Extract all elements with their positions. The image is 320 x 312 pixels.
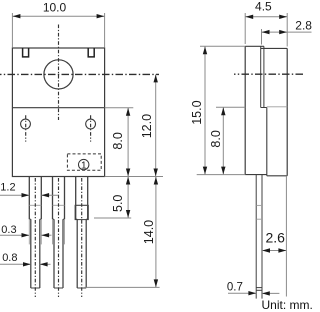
dimension 12.0 line: [155, 74, 157, 176]
side view pocket edge lines: [260, 46, 262, 107]
svg-text:14.0: 14.0: [142, 220, 156, 244]
side view lower internal edge: [266, 108, 268, 176]
dimension 15.0 line: [204, 46, 206, 174]
dimension 4.5 line: [245, 16, 287, 18]
lead 2 wide section: [52, 177, 54, 220]
lead 3 wide section: [75, 177, 77, 220]
pin mark centerline right: [90, 115, 92, 141]
top notch left: [23, 48, 29, 57]
svg-text:5.0: 5.0: [111, 195, 125, 212]
side view front face: [244, 46, 246, 174]
dimension 2.8 line: [262, 31, 312, 33]
lead 1 dambar protrusion lines: [28, 219, 30, 244]
svg-text:4.5: 4.5: [255, 0, 272, 14]
extension line bottom side view: [197, 174, 246, 176]
front view package body outline: [12, 48, 104, 177]
dimension 2.6 line: [262, 250, 286, 252]
extension line for 2.8: [261, 29, 263, 45]
extension line back face down for 2.6: [285, 176, 287, 297]
side view top edge back: [261, 47, 288, 49]
lead 1 step ledge: [29, 218, 31, 220]
mounting hole: [44, 60, 73, 89]
svg-text:Unit: mm.: Unit: mm.: [262, 298, 313, 312]
extension line at body bottom: [105, 176, 163, 178]
side view horizontal centerline: [234, 73, 304, 75]
extension line at lead3 step for 5.0: [94, 217, 131, 219]
svg-text:2.8: 2.8: [295, 18, 312, 32]
dimension 8.0 line (front): [127, 108, 129, 177]
vertical centerline of body: [58, 25, 60, 121]
svg-text:1: 1: [81, 160, 87, 171]
lead 2 narrow section: [53, 219, 55, 288]
side view lead: [255, 175, 257, 299]
extension line at lead tips for 14.0: [85, 286, 160, 288]
svg-text:2.6: 2.6: [266, 229, 286, 245]
svg-text:1.2: 1.2: [0, 182, 15, 194]
svg-text:0.3: 0.3: [1, 224, 16, 236]
pin mark centerline left: [25, 115, 27, 141]
front view step line (upper/lower mold boundary): [12, 107, 104, 109]
lead 2 dambar protrusion lines: [52, 219, 54, 244]
lead 3 centerline: [81, 178, 83, 297]
lead 1 centerline: [34, 178, 36, 297]
svg-text:8.0: 8.0: [209, 130, 223, 147]
extension line top for 15.0: [200, 45, 245, 47]
side view top edge front: [245, 45, 264, 47]
lead 2 step ledge: [53, 218, 55, 220]
top notch right: [88, 48, 94, 57]
horizontal centerline through hole: [0, 73, 159, 75]
svg-text:0.7: 0.7: [227, 282, 243, 294]
svg-text:12.0: 12.0: [140, 114, 154, 138]
extension lines for 4.5: [244, 13, 246, 44]
extension line at step for 8.0: [105, 107, 134, 109]
lead 1 wide section: [28, 177, 30, 220]
svg-text:0.8: 0.8: [2, 252, 17, 264]
lead 3 step ledge: [76, 218, 78, 220]
extension line at side step for 8.0: [216, 106, 245, 108]
circled 1 (pin1 indicator): [79, 159, 89, 169]
dimension 14.0 line: [155, 177, 157, 288]
side view bottom edge front: [245, 174, 267, 176]
lead 3 narrow section: [76, 219, 78, 288]
dimension 10.0 line: [12, 15, 104, 17]
svg-text:10.0: 10.0: [43, 1, 67, 15]
lead 2 centerline: [58, 178, 60, 297]
side view step line: [261, 107, 267, 109]
svg-text:8.0: 8.0: [111, 132, 125, 149]
side view bottom edge back: [267, 175, 287, 177]
marking area dashed box: [67, 154, 101, 170]
dimension 5.0 line: [127, 177, 129, 219]
pin mark circle left: [21, 119, 31, 129]
pin mark circle right: [86, 119, 96, 129]
lead 3 solder dip box: [75, 205, 88, 219]
extension line: body top right for 10.0: [104, 13, 106, 47]
svg-text:15.0: 15.0: [190, 100, 204, 124]
extension line: body top left for 10.0: [11, 13, 13, 47]
lead 1 narrow section: [30, 219, 32, 288]
side view back face: [286, 48, 288, 175]
dimension 8.0 side line: [222, 107, 224, 174]
